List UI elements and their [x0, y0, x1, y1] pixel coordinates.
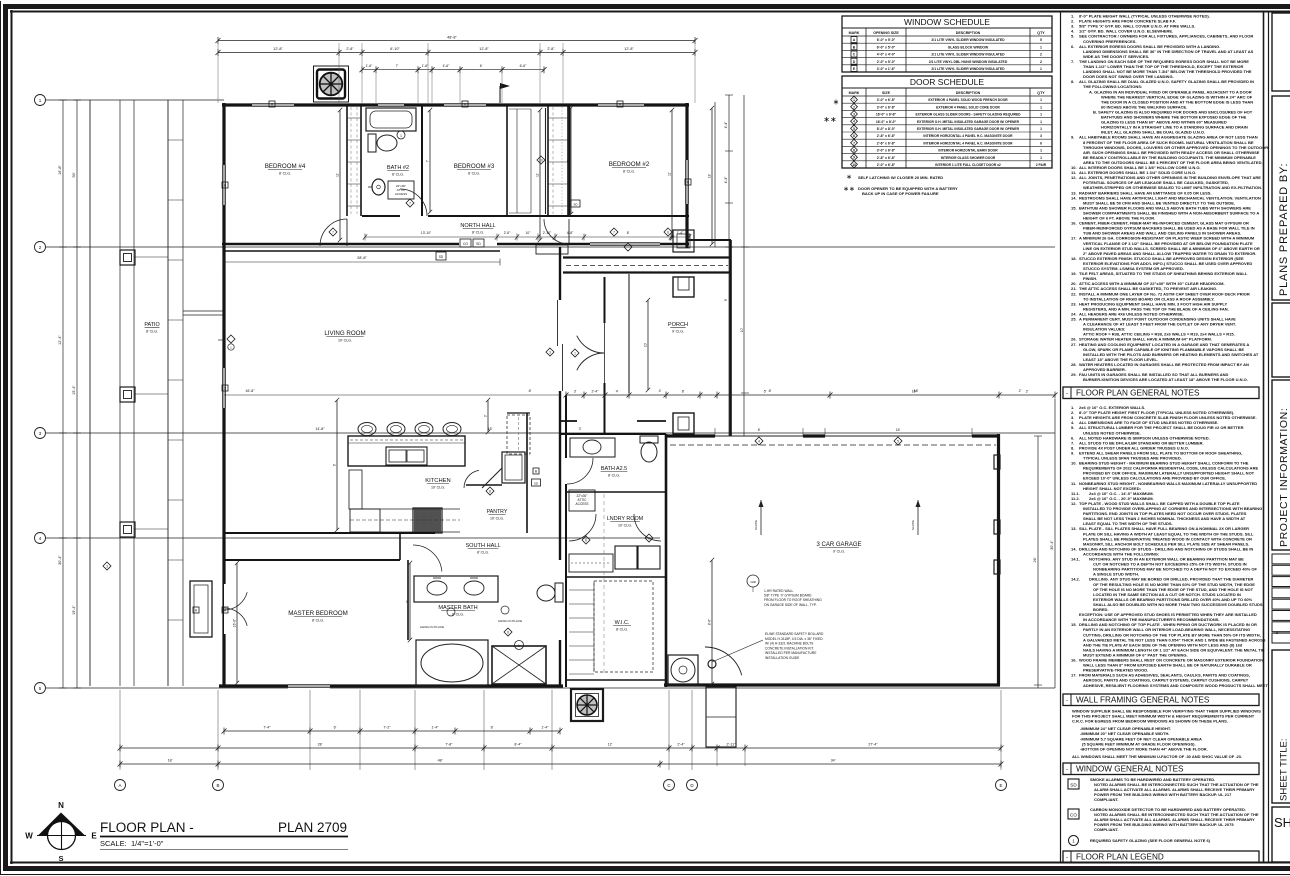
- kitchen island sink: [386, 447, 427, 465]
- svg-text:EXTERIOR 4 PANEL SOLID CORE DO: EXTERIOR 4 PANEL SOLID CORE DOOR: [936, 105, 1000, 109]
- bath A2.5 vanity sink: [570, 438, 615, 457]
- top dimension row 1: [216, 47, 698, 56]
- svg-text:3'-0" x 6'-8": 3'-0" x 6'-8": [877, 105, 896, 109]
- garage door dim labels: [715, 428, 972, 436]
- svg-text:W/ (4) H-3321 MACHINE BOLTS: W/ (4) H-3321 MACHINE BOLTS: [765, 642, 814, 646]
- svg-text:28.: 28.: [1071, 362, 1077, 367]
- svg-text:1'-6": 1'-6": [366, 64, 374, 68]
- exterior wall: bedroom wing left: [222, 103, 225, 248]
- dim line 28-8: [224, 256, 500, 266]
- window master bedroom bottom: [288, 684, 330, 689]
- smoke detector legend SD: [1068, 777, 1259, 802]
- svg-text:CO: CO: [1070, 813, 1077, 818]
- svg-text:1: 1: [400, 134, 402, 138]
- bottom dimension row 1: [222, 726, 563, 735]
- svg-text:7'-2": 7'-2": [383, 726, 391, 730]
- svg-text:6.: 6.: [1071, 44, 1074, 49]
- svg-text:6: 6: [853, 134, 855, 138]
- floor plan general notes list: [1071, 405, 1268, 688]
- svg-text:PATIO: PATIO: [144, 322, 159, 328]
- svg-text:E: E: [91, 832, 97, 841]
- svg-text:AGING IN PLACE: AGING IN PLACE: [498, 619, 522, 623]
- title block box: sheet title: [1272, 650, 1290, 803]
- svg-text:8' CLG.: 8' CLG.: [616, 628, 628, 632]
- svg-text:7: 7: [853, 141, 855, 145]
- svg-text:7: 7: [409, 201, 411, 205]
- svg-text:-BOTTOM OF OPENING NOT MORE TH: -BOTTOM OF OPENING NOT MORE THAN 44" ABO…: [1080, 746, 1208, 751]
- svg-text:PORCH: PORCH: [668, 322, 688, 328]
- top dimension row 0 overall: [216, 36, 698, 45]
- wall: master bath divider: [400, 533, 408, 640]
- svg-text:16'-8": 16'-8": [233, 618, 237, 627]
- svg-text:ACCESS: ACCESS: [395, 192, 407, 196]
- bath A2.5 door arc: [567, 458, 593, 484]
- svg-text:17.: 17.: [1071, 236, 1077, 241]
- svg-text:WINDOW SCHEDULE: WINDOW SCHEDULE: [904, 17, 990, 27]
- svg-text:6'-0" x 5'-0": 6'-0" x 5'-0": [877, 45, 896, 49]
- svg-text:16'-0" x 8'-0": 16'-0" x 8'-0": [876, 120, 897, 124]
- svg-text:QTY: QTY: [1037, 31, 1045, 35]
- header box: FLOOR PLAN GENERAL NOTES: [1063, 387, 1259, 399]
- svg-text:MASTER BEDROOM: MASTER BEDROOM: [288, 610, 347, 617]
- svg-text:BURNER-IGNITION DEVICES ARE LO: BURNER-IGNITION DEVICES ARE LOCATED AT L…: [1083, 377, 1248, 382]
- svg-text:INTERIOR HORIZONTAL 4 PANEL H.: INTERIOR HORIZONTAL 4 PANEL H.C. MASONIT…: [923, 134, 1013, 138]
- svg-text:1HR: 1HR: [750, 580, 756, 584]
- svg-text:NORTH HALL: NORTH HALL: [460, 223, 495, 229]
- svg-text:48'-8": 48'-8": [447, 36, 457, 40]
- svg-text:12'-8": 12'-8": [273, 47, 283, 51]
- svg-text:12'-8": 12'-8": [624, 47, 634, 51]
- svg-text:SIZE: SIZE: [882, 91, 891, 95]
- svg-text:1: 1: [1040, 67, 1042, 71]
- svg-text:INTERIOR HORIZONTAL BARN DOOR: INTERIOR HORIZONTAL BARN DOOR: [938, 149, 998, 153]
- svg-text:B: B: [1276, 630, 1279, 635]
- kitchen island: [348, 436, 465, 466]
- svg-text:8': 8': [758, 428, 761, 432]
- svg-text:INTERIOR HORIZONTAL 4 PANEL H.: INTERIOR HORIZONTAL 4 PANEL H.C. MASONIT…: [923, 141, 1013, 145]
- svg-text:5: 5: [1040, 38, 1042, 42]
- svg-text:KITCHEN: KITCHEN: [425, 478, 450, 484]
- svg-text:8': 8': [627, 231, 630, 235]
- svg-text:WALL FRAMING GENERAL NOTES: WALL FRAMING GENERAL NOTES: [1076, 696, 1210, 705]
- closet bed3 door line: [537, 108, 546, 214]
- svg-text:12'-8": 12'-8": [479, 47, 489, 51]
- AGING IN PLACE notes: [420, 606, 522, 629]
- svg-text:2': 2': [1026, 390, 1029, 394]
- room label WIC: [613, 620, 631, 632]
- svg-text:5/8" TYPE 'X' GYPSUM BOARD: 5/8" TYPE 'X' GYPSUM BOARD: [764, 594, 812, 598]
- entry double door arcs: [577, 323, 605, 383]
- svg-text:2 PAIR: 2 PAIR: [1036, 163, 1047, 167]
- svg-text:12'-4": 12'-4": [58, 335, 62, 345]
- hall cabinet below wall: [536, 245, 568, 254]
- svg-text:MARK: MARK: [849, 91, 860, 95]
- wall: wic top: [566, 576, 666, 578]
- bottom vertical extension lines: [120, 690, 1001, 770]
- svg-text:7': 7': [426, 159, 430, 162]
- wall: porch right: [729, 240, 732, 436]
- svg-text:10' CLG.: 10' CLG.: [618, 524, 632, 528]
- svg-text:WINDOW GENERAL NOTES: WINDOW GENERAL NOTES: [1076, 765, 1184, 774]
- svg-text:18.: 18.: [1071, 256, 1077, 261]
- svg-text:EXTERIOR O.H. METAL INSULATED: EXTERIOR O.H. METAL INSULATED GARAGE DOO…: [917, 120, 1020, 124]
- window master bedroom left bay: [190, 581, 227, 637]
- svg-text:1: 1: [1040, 120, 1042, 124]
- svg-text:18': 18': [914, 389, 919, 393]
- svg-text:2: 2: [648, 536, 650, 540]
- door bedroom2 arc: [544, 219, 569, 244]
- left dimension lines: [58, 100, 81, 688]
- ceiling fan mark living: [218, 335, 235, 350]
- svg-text:2/1 LITE VINYL SLIDER WINDOW I: 2/1 LITE VINYL SLIDER WINDOW INSULATED: [931, 38, 1005, 42]
- svg-text:FLOOR PLAN LEGEND: FLOOR PLAN LEGEND: [1076, 853, 1164, 862]
- svg-text:7: 7: [613, 230, 615, 234]
- title block separator double line: [1264, 11, 1269, 863]
- svg-text:5': 5': [567, 159, 571, 162]
- door bath2 arc: [400, 189, 427, 216]
- wic shelving: [569, 494, 653, 676]
- wall: porch left: [628, 274, 630, 393]
- SD CO marks north hall: [460, 239, 484, 247]
- grid bubble D: [687, 780, 698, 791]
- svg-text:∗: ∗: [846, 174, 852, 181]
- window schedule table: [842, 16, 1052, 72]
- svg-text:SD: SD: [476, 242, 481, 246]
- svg-text:5: 5: [897, 439, 899, 443]
- room label MASTER BATH: [438, 605, 477, 617]
- svg-text:CONCRETE INSTALLATION KIT.: CONCRETE INSTALLATION KIT.: [765, 646, 814, 650]
- svg-text:∗∗: ∗∗: [823, 115, 836, 124]
- svg-text:SHALL ALSO BE DOUBLED WITH NO: SHALL ALSO BE DOUBLED WITH NO MORE THAN …: [1093, 602, 1263, 607]
- svg-text:2'-4": 2'-4": [592, 390, 600, 394]
- window bedroom4 left: [222, 165, 227, 205]
- refrigerator: [502, 452, 525, 483]
- svg-text:SHEET TITLE:: SHEET TITLE:: [1279, 739, 1290, 801]
- svg-text:50': 50': [72, 172, 76, 177]
- svg-text:10': 10': [740, 327, 744, 332]
- svg-text:2'-8" x 6'-8": 2'-8" x 6'-8": [877, 134, 896, 138]
- wall framing notes paragraph: [1072, 709, 1261, 759]
- svg-text:8': 8': [491, 726, 494, 730]
- header box: WALL FRAMING GENERAL NOTES: [1063, 694, 1259, 706]
- svg-text:BACK UP IN CASE OF POWER FAILU: BACK UP IN CASE OF POWER FAILURE: [862, 191, 939, 196]
- bollard mark: [708, 660, 716, 668]
- room label BEDROOM #3: [454, 163, 495, 176]
- attic access bath #2: [388, 181, 414, 199]
- general notes list (top right column): [1071, 14, 1268, 383]
- svg-text:28'-8": 28'-8": [357, 256, 367, 260]
- room label MASTER BEDROOM: [288, 610, 347, 623]
- svg-text:16'-8": 16'-8": [245, 389, 255, 393]
- grid bubble C: [664, 780, 675, 791]
- svg-text:7'-4": 7'-4": [263, 726, 271, 730]
- grid line 1: [35, 95, 225, 106]
- svg-text:W.I.C.: W.I.C.: [615, 620, 630, 626]
- slope arrow 2: [911, 500, 921, 535]
- door bedroom4 arc: [320, 219, 347, 246]
- svg-text:1: 1: [574, 351, 576, 355]
- svg-text:BEDROOM #3: BEDROOM #3: [454, 163, 495, 170]
- middle dimension row: [564, 390, 1058, 399]
- svg-text:10': 10': [644, 342, 648, 347]
- svg-text:25.: 25.: [1071, 317, 1077, 322]
- right dims garage: [1033, 399, 1055, 688]
- svg-text:1: 1: [1040, 45, 1042, 49]
- wall: bath A2.5 top: [560, 433, 666, 435]
- svg-text:1: 1: [1040, 105, 1042, 109]
- svg-text:FLOOR PLAN -: FLOOR PLAN -: [100, 820, 194, 835]
- svg-text:2'-8" x 6'-8": 2'-8" x 6'-8": [877, 156, 896, 160]
- svg-text:5.: 5.: [1071, 425, 1074, 430]
- svg-text:12.: 12.: [1071, 501, 1077, 506]
- garage right window marks: [994, 455, 1000, 574]
- SD mark bedroom2: [571, 200, 580, 207]
- svg-text:2'-0" x 6'-8": 2'-0" x 6'-8": [877, 163, 896, 167]
- svg-text:MASTER BATH: MASTER BATH: [438, 605, 477, 611]
- svg-text:8' CLG.: 8' CLG.: [312, 619, 324, 623]
- grid line 4: [35, 533, 661, 544]
- svg-text:QTY: QTY: [1037, 91, 1045, 95]
- safety glazing circle bath2: [397, 131, 405, 139]
- window W-A bedroom3 top: [444, 103, 486, 108]
- svg-text:6: 6: [1040, 141, 1042, 145]
- kitchen range: [413, 508, 442, 533]
- svg-text:1-HR RATED WALL: 1-HR RATED WALL: [764, 589, 793, 593]
- top dimension extension lines: [218, 43, 695, 103]
- svg-text:8': 8': [529, 389, 532, 393]
- svg-text:18': 18': [708, 173, 712, 178]
- svg-text:-: -: [1066, 855, 1068, 861]
- svg-text:LNDRY ROOM: LNDRY ROOM: [607, 516, 644, 522]
- garage side door arc: [705, 647, 743, 685]
- svg-text:9.: 9.: [1071, 450, 1074, 455]
- svg-text:W: W: [25, 832, 33, 841]
- svg-text:SOUTH HALL: SOUTH HALL: [465, 543, 500, 549]
- svg-text:13.: 13.: [1071, 526, 1077, 531]
- svg-text:DESCRIPTION: DESCRIPTION: [956, 31, 981, 35]
- notes column left border: [1060, 11, 1062, 863]
- toilet bath #2: [368, 134, 397, 152]
- svg-text:SCALE:: SCALE:: [100, 839, 127, 848]
- wall: garage bottom: [664, 683, 1000, 686]
- svg-text:1: 1: [1040, 127, 1042, 131]
- svg-text:EXTERIOR 4 PANEL SOLID WOOD FR: EXTERIOR 4 PANEL SOLID WOOD FRENCH DOOR: [928, 98, 1008, 102]
- room label BATH A2.5: [601, 466, 628, 478]
- title block box: project information: [1272, 380, 1290, 550]
- svg-text:23.: 23.: [1071, 301, 1077, 306]
- svg-text:11.: 11.: [1071, 481, 1076, 486]
- svg-text:4'-4": 4'-4": [724, 176, 728, 184]
- svg-text:INSTALLED PER MANUFACTURE: INSTALLED PER MANUFACTURE: [765, 651, 817, 655]
- svg-text:INTERIOR GLASS SHOWER DOOR: INTERIOR GLASS SHOWER DOOR: [941, 156, 996, 160]
- svg-text:4'-4": 4'-4": [724, 121, 728, 129]
- svg-text:4': 4': [616, 390, 619, 394]
- note: 1-hr rated wall: [747, 575, 822, 607]
- wall: bath A2.5 bottom: [566, 491, 666, 493]
- wall: living/kitchen right: [559, 247, 561, 687]
- window bedroom2 bottom: [590, 242, 660, 252]
- svg-text:CO: CO: [463, 242, 468, 246]
- svg-text:16.: 16.: [1071, 658, 1077, 663]
- svg-text:11': 11': [536, 173, 540, 177]
- kitchen counter: [349, 470, 460, 532]
- svg-text:2'-8": 2'-8": [547, 47, 555, 51]
- svg-text:∗: ∗: [833, 98, 840, 107]
- wall: entry corridor stubs: [561, 420, 666, 422]
- svg-text:INTERIOR 1 LITE FULL CLOSET DO: INTERIOR 1 LITE FULL CLOSET DOOR x2: [935, 163, 1001, 167]
- svg-text:1'-4": 1'-4": [541, 726, 549, 730]
- safety glazing legend circle 1: [1069, 836, 1211, 846]
- svg-text:S: S: [58, 854, 63, 863]
- marks near pantry: [532, 468, 541, 486]
- room label LNDRY ROOM: [607, 516, 644, 528]
- north hall dim row: [363, 231, 691, 241]
- title block box: plans prepared by: [1272, 96, 1290, 300]
- svg-text:8' CLG.: 8' CLG.: [472, 231, 484, 235]
- wall: bedroom2 left: [569, 105, 571, 216]
- svg-text:15.: 15.: [1071, 205, 1077, 210]
- title block revision rows: [1272, 554, 1290, 643]
- svg-text:17.: 17.: [1071, 673, 1077, 678]
- patio column P3: [120, 522, 135, 537]
- exterior wall: bedroom wing top: [222, 103, 689, 106]
- svg-text:48': 48': [438, 759, 443, 763]
- svg-text:16'-8": 16'-8": [58, 165, 62, 175]
- svg-text:OPENING SIZE: OPENING SIZE: [873, 31, 899, 35]
- sheet title: FLOOR PLAN: [100, 820, 348, 850]
- svg-text:SLOPE: SLOPE: [754, 520, 758, 530]
- window marks: [193, 101, 691, 613]
- porch column top: [673, 277, 694, 297]
- svg-text:9' CLG.: 9' CLG.: [833, 550, 845, 554]
- svg-text:8' CLG.: 8' CLG.: [468, 172, 480, 176]
- svg-text:MARK: MARK: [849, 31, 860, 35]
- svg-text:8' CLG.: 8' CLG.: [279, 172, 291, 176]
- SD CO marks south hall: [436, 252, 446, 260]
- door schedule table: [842, 76, 1052, 168]
- wall: bedroom2 to porch stub: [687, 239, 731, 241]
- wall: north hall top: [362, 215, 689, 217]
- svg-text:N: N: [58, 801, 64, 810]
- bath A2.5 toilet: [640, 436, 658, 462]
- svg-text:19.: 19.: [1071, 271, 1077, 276]
- room label LIVING ROOM: [324, 330, 365, 343]
- room label 3 CAR GARAGE: [816, 542, 861, 554]
- patio roof edge lines: [90, 100, 224, 686]
- bottom dimension row 3: [118, 759, 1004, 768]
- svg-text:11': 11': [668, 172, 672, 176]
- svg-text:SLOPE: SLOPE: [911, 520, 915, 530]
- title block box: stamp: [1272, 13, 1290, 91]
- svg-text:14.2.: 14.2.: [1071, 577, 1080, 582]
- svg-text:COMPLIANT.: COMPLIANT.: [1094, 827, 1118, 832]
- svg-text:B: B: [216, 783, 219, 788]
- living kitchen dim line: [224, 395, 560, 433]
- wall: garage right: [997, 434, 1000, 685]
- svg-text:7: 7: [332, 230, 334, 234]
- svg-text:9.: 9.: [1071, 135, 1074, 140]
- svg-text:2'-6" x 6'-8": 2'-6" x 6'-8": [877, 141, 896, 145]
- svg-text:9': 9': [333, 463, 337, 466]
- svg-text:∗∗: ∗∗: [843, 186, 855, 193]
- washer dryer: [569, 546, 660, 572]
- patio column P1: [120, 250, 135, 265]
- svg-text:3 CAR GARAGE: 3 CAR GARAGE: [816, 542, 861, 548]
- svg-text:28': 28': [318, 743, 323, 747]
- svg-text:10.: 10.: [1071, 461, 1077, 466]
- right of bedroom2 dims: [715, 95, 749, 436]
- svg-text:FLOOR PLAN GENERAL NOTES: FLOOR PLAN GENERAL NOTES: [1076, 389, 1200, 398]
- grid bubble E: [996, 780, 1007, 791]
- svg-text:3'-0" x 6'-8": 3'-0" x 6'-8": [877, 149, 896, 153]
- svg-text:BEDROOM #4: BEDROOM #4: [265, 163, 306, 170]
- slider door living room: [558, 300, 563, 391]
- svg-text:1: 1: [1040, 98, 1042, 102]
- svg-text:PLANS PREPARED BY:: PLANS PREPARED BY:: [1278, 163, 1290, 296]
- wall: living block bottom: [219, 684, 563, 687]
- grid bubble A: [115, 780, 126, 791]
- svg-text:4'-6": 4'-6": [443, 64, 451, 68]
- svg-text:5': 5': [764, 390, 767, 394]
- interior dim labels: [245, 389, 1021, 431]
- svg-text:11': 11': [336, 173, 340, 177]
- bottom dimension row 2: [118, 743, 1004, 752]
- svg-text:ALL WINDOWS SHALL MEET THE MIN: ALL WINDOWS SHALL MEET THE MINIMUM U-FAC…: [1072, 754, 1242, 759]
- master bath tub: [416, 640, 488, 686]
- svg-text:6'-10": 6'-10": [390, 47, 400, 51]
- svg-text:26': 26': [1033, 557, 1037, 562]
- svg-text:13'-10": 13'-10": [421, 231, 432, 235]
- svg-text:4: 4: [853, 120, 855, 124]
- window bath2 top: [378, 103, 404, 108]
- svg-text:SH: SH: [1274, 815, 1290, 830]
- svg-text:4: 4: [758, 439, 760, 443]
- svg-text:9: 9: [853, 156, 855, 160]
- svg-text:4'-0" x 4'-0": 4'-0" x 4'-0": [877, 53, 896, 57]
- svg-text:3'-0" x 1'-6": 3'-0" x 1'-6": [877, 67, 896, 71]
- svg-text:4'-8": 4'-8": [567, 231, 574, 235]
- svg-text:8: 8: [853, 149, 855, 153]
- svg-text:8' CLG.: 8' CLG.: [623, 170, 635, 174]
- svg-text:5.: 5.: [1071, 34, 1074, 39]
- room label PATIO: [144, 322, 159, 334]
- svg-text:PLAN 2709: PLAN 2709: [278, 820, 347, 835]
- svg-text:8'-0" x 8'-0": 8'-0" x 8'-0": [877, 127, 896, 131]
- svg-text:-: -: [1066, 767, 1068, 773]
- svg-text:1: 1: [518, 644, 520, 648]
- grid line 5: [35, 683, 1056, 694]
- svg-text:E: E: [999, 783, 1002, 788]
- svg-text:8' CLG.: 8' CLG.: [477, 551, 489, 555]
- wall: wic bottom: [566, 679, 666, 681]
- svg-text:3': 3': [574, 390, 577, 394]
- svg-text:27'-4": 27'-4": [868, 743, 878, 747]
- svg-text:10' CLG.: 10' CLG.: [490, 517, 504, 521]
- room label BEDROOM #4: [265, 163, 306, 176]
- svg-text:1: 1: [1072, 839, 1075, 844]
- svg-text:6': 6': [480, 64, 483, 68]
- closet bed3 rod lines: [509, 109, 531, 213]
- svg-text:2'-11": 2'-11": [727, 743, 737, 747]
- svg-text:AGING IN PLACE: AGING IN PLACE: [420, 625, 444, 629]
- svg-text:7.: 7.: [1071, 59, 1074, 64]
- svg-text:2/1 LITE VINYL DBL HUNG WINDOW: 2/1 LITE VINYL DBL HUNG WINDOW INSULATED: [929, 60, 1008, 64]
- exhaust fan lower: [571, 689, 603, 721]
- master bath toilet: [537, 583, 563, 602]
- pantry shelving: [507, 415, 530, 454]
- svg-text:8'-4": 8'-4": [514, 743, 522, 747]
- svg-text:ADHESIVE, RESILIENT FLOORING S: ADHESIVE, RESILIENT FLOORING SYSTEMS AND…: [1083, 683, 1268, 688]
